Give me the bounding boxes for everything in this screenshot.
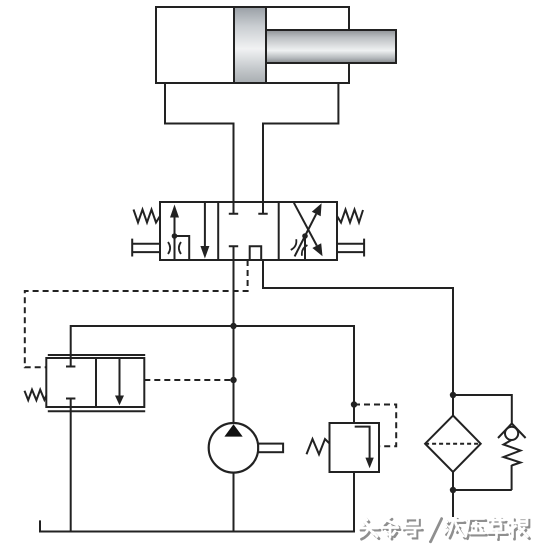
filter diamond bbox=[425, 416, 481, 472]
check valve branch top wire bbox=[453, 395, 512, 424]
node junction P/pilot bbox=[230, 377, 236, 383]
node junction P/supply bbox=[230, 323, 236, 329]
right position drop line bbox=[304, 236, 306, 260]
center position blocked port A bbox=[229, 202, 238, 214]
pump suction wire bbox=[233, 473, 235, 532]
relief valve body bbox=[330, 423, 380, 472]
unloading valve drain wire bbox=[70, 407, 72, 532]
valve left pilot bbox=[132, 239, 160, 257]
unloading valve flow arrow bbox=[119, 358, 121, 396]
pump shaft bbox=[258, 444, 283, 453]
wire unloading valve supply bbox=[71, 326, 354, 423]
check valve bottom wire bbox=[511, 465, 513, 490]
unloading valve blocked top port bbox=[66, 358, 75, 367]
right position arrow P to B bbox=[294, 203, 317, 246]
pump circle bbox=[209, 423, 259, 473]
valve cell divider right bbox=[278, 202, 280, 260]
valve cell divider left bbox=[217, 202, 219, 260]
pilot line from valve (dashed) bbox=[25, 260, 248, 367]
unloading valve body bbox=[46, 358, 144, 407]
right position arrow A to T bbox=[295, 214, 317, 256]
unloading valve spring bbox=[25, 390, 47, 401]
cylinder port manifold right bbox=[263, 83, 338, 202]
right position junction dot bbox=[302, 233, 308, 239]
center position blocked port B bbox=[258, 202, 267, 214]
check valve branch bottom wire bbox=[453, 489, 512, 491]
left position down arrow bbox=[204, 202, 206, 247]
valve left spring bbox=[134, 210, 161, 223]
check valve spring bbox=[504, 440, 521, 466]
right position throttle arcs bbox=[291, 239, 308, 255]
check valve seat bbox=[498, 424, 526, 439]
left position throttle arcs bbox=[168, 242, 170, 254]
center position blocked port P bbox=[229, 246, 238, 260]
left position bypass box bbox=[175, 236, 190, 260]
left position junction dot bbox=[172, 233, 178, 239]
node junction relief inlet bbox=[351, 401, 357, 407]
node junction filter bottom bbox=[450, 487, 456, 493]
unloading valve divider bbox=[95, 358, 97, 407]
pilot line unloading valve (dashed) bbox=[144, 379, 233, 381]
filter element (dashed) bbox=[425, 443, 481, 445]
node junction filter top bbox=[450, 392, 456, 398]
cylinder piston bbox=[234, 7, 266, 83]
unloading valve blocked bottom port bbox=[66, 399, 75, 408]
valve right pilot bbox=[337, 239, 364, 257]
left position up arrow bbox=[174, 216, 176, 236]
unloading valve upper parallel line bbox=[48, 354, 145, 356]
center position bypass U bbox=[250, 246, 262, 260]
filter drain wire bbox=[452, 472, 454, 517]
watermark 头条号 / 液压草根 bbox=[359, 517, 530, 542]
left position throttled line bbox=[174, 236, 176, 260]
valve right spring bbox=[337, 210, 363, 223]
unloading valve lower parallel line bbox=[48, 410, 145, 412]
wire P pump line bbox=[233, 260, 235, 423]
cylinder port manifold left bbox=[165, 83, 234, 202]
wire T return line bbox=[263, 260, 453, 416]
pump triangle bbox=[224, 424, 242, 436]
check valve ball bbox=[505, 427, 518, 440]
relief valve spring bbox=[307, 439, 330, 454]
cylinder body bbox=[156, 7, 349, 83]
cylinder rod bbox=[265, 30, 396, 63]
relief valve pilot (dashed) bbox=[354, 405, 396, 447]
directional valve body bbox=[160, 202, 337, 260]
relief valve flow path bbox=[355, 427, 370, 459]
tank line bbox=[40, 472, 354, 532]
